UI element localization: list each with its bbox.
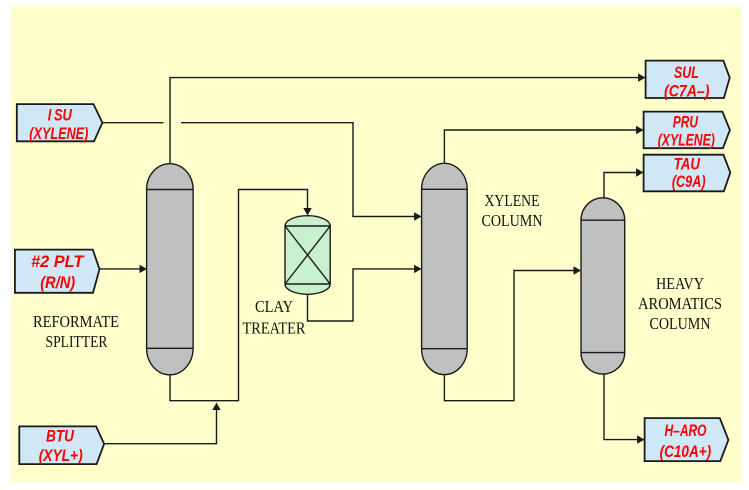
arrowhead into xylene column upper inlet [414, 212, 422, 220]
arrowhead into reformate splitter [140, 265, 148, 273]
stream tag BTU (XYL+) [19, 426, 104, 465]
wire: clay treater outlet to xylene column lower inlet [308, 269, 416, 321]
arrowhead into xylene column lower inlet [414, 265, 422, 273]
svg-text:(XYLENE): (XYLENE) [29, 125, 88, 143]
svg-text:(XYLENE): (XYLENE) [658, 131, 716, 149]
svg-text:(C10A+): (C10A+) [660, 443, 712, 461]
stream tag ISU (XYLENE) [17, 104, 103, 143]
svg-text:PRU: PRU [673, 114, 699, 132]
arrowhead into heavy aromatics column [574, 266, 582, 274]
svg-text:TAU: TAU [674, 156, 701, 174]
svg-text:(C9A): (C9A) [672, 173, 706, 191]
svg-text:AROMATICS: AROMATICS [638, 294, 722, 313]
svg-text:(R/N): (R/N) [40, 274, 75, 292]
svg-text:SPLITTER: SPLITTER [46, 332, 108, 351]
arrowhead into clay treater top [303, 208, 311, 216]
wire: #2 PLT feed into reformate splitter [100, 268, 141, 270]
svg-text:H–ARO: H–ARO [665, 422, 707, 440]
arrowhead into PRU [636, 126, 644, 134]
svg-text:#2 PLT: #2 PLT [31, 253, 85, 271]
svg-text:HEAVY: HEAVY [656, 274, 704, 293]
wire: heavy aromatics overhead to TAU [604, 173, 637, 198]
wire: ISU feed to xylene column (with crossing gap) [102, 123, 415, 217]
arrowhead up into bottoms line [212, 403, 220, 411]
wire: heavy aromatics bottoms to H-ARO [604, 374, 638, 440]
stream tag #2 PLT (R/N) [15, 250, 100, 293]
xylene column [422, 163, 468, 374]
stream tag PRU (XYLENE) [644, 112, 730, 150]
svg-text:SUL: SUL [674, 64, 699, 82]
wire: xylene column bottoms to heavy aromatics column [444, 271, 575, 401]
svg-text:CLAY: CLAY [255, 297, 293, 316]
svg-text:COLUMN: COLUMN [482, 211, 543, 230]
arrowhead into SUL [638, 73, 646, 81]
stream tag TAU (C9A) [644, 155, 731, 192]
svg-text:(XYL+): (XYL+) [39, 447, 83, 465]
wire: splitter overhead to SUL [170, 78, 639, 164]
wire: splitter bottoms to clay treater [170, 190, 308, 401]
wire: xylene column overhead to PRU [444, 130, 637, 163]
svg-text:COLUMN: COLUMN [650, 314, 711, 333]
svg-text:XYLENE: XYLENE [485, 191, 540, 210]
svg-text:I SU: I SU [48, 107, 73, 125]
svg-text:REFORMATE: REFORMATE [33, 312, 119, 331]
arrowhead into TAU [636, 168, 644, 176]
reformate splitter column [147, 164, 194, 375]
svg-text:(C7A–): (C7A–) [664, 82, 710, 100]
svg-text:BTU: BTU [46, 427, 75, 445]
wire: BTU feed joining bottoms line [104, 410, 216, 444]
stream tag H-ARO (C10A+) [645, 418, 729, 461]
stream tag SUL (C7A-) [646, 61, 730, 101]
arrowhead into H-ARO [637, 435, 645, 443]
heavy aromatics column [581, 198, 625, 374]
svg-text:TREATER: TREATER [243, 319, 306, 338]
clay treater vessel [285, 216, 330, 295]
